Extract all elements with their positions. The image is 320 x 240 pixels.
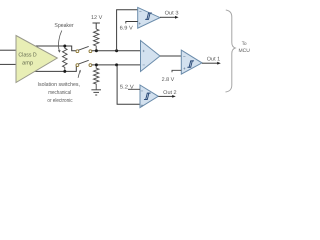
svg-text:Isolation switches,: Isolation switches, [38,81,81,88]
svg-text:−: − [141,88,144,93]
wire amp bottom output [34,65,77,72]
svg-text:+: + [138,21,141,26]
node speaker top [63,45,66,48]
comparator U1 (Out 3) [138,7,160,28]
resistor R1 (pull-up from 12 V) [94,29,99,51]
6.9 V stub [126,22,138,24]
svg-text:or electronic: or electronic [47,97,72,104]
12 V supply bar [93,22,100,24]
brace to MCU [226,10,236,92]
hysteresis symbol U3 [144,93,151,99]
speaker (zigzag across amp outputs) [63,46,68,71]
node C (row C tee to comparator U3) [115,63,118,66]
svg-text:2.8 V: 2.8 V [162,77,175,83]
5.2 V stub [128,88,140,90]
svg-text:Out 2: Out 2 [163,90,176,96]
resistor R2 (pull-down to ground) [94,65,99,90]
wire riser node B to U1 minus input [117,10,138,51]
2.8 V stub [172,70,181,72]
svg-text:Out 1: Out 1 [207,56,220,62]
wire row B (node B to difference amp + input) [92,50,141,52]
svg-text:6.9 V: 6.9 V [120,26,134,32]
ground [91,90,101,95]
node C1 (R2 top junction) [95,63,98,66]
svg-text:+: + [142,48,145,53]
wire A2 output [160,55,181,57]
comparator U2 (Out 1) [181,50,202,74]
svg-text:12 V: 12 V [91,15,103,21]
Isolation switches pointer arrow [78,71,80,78]
svg-text:+: + [141,103,144,108]
wire amp top output [33,46,76,51]
hysteresis symbol U1 [145,13,152,19]
hysteresis symbol U2 [187,61,194,67]
node speaker bottom [63,70,66,73]
Speaker pointer arrow [58,31,61,51]
op-amp A2 difference amp [141,41,161,72]
wire row C (node C to difference amp - input) [92,64,141,66]
node B (row B tee to comparator U1) [115,49,118,52]
svg-text:To: To [242,41,247,47]
switch S1 (top isolation switch) [76,46,92,52]
switch S2 (bottom isolation switch) [76,60,92,66]
wire amp input 1 [0,49,16,51]
svg-text:amp: amp [22,61,33,67]
wire U3 output / Out 2 arrow [158,95,173,97]
svg-text:−: − [142,62,145,67]
comparator U3 (Out 2) [140,85,158,108]
svg-text:+: + [183,66,186,71]
svg-text:Out 3: Out 3 [165,10,179,16]
svg-text:Speaker: Speaker [54,22,73,29]
svg-text:Class D: Class D [18,52,36,59]
wire dropper node C to U3 plus input [117,65,140,104]
node B1 (R1 bottom junction) [95,49,98,52]
wire amp input 2 [0,63,16,65]
svg-text:mechanical: mechanical [48,89,71,96]
op-amp A1 Class D amp [16,36,57,83]
svg-text:5.2 V: 5.2 V [120,84,134,90]
svg-text:MCU: MCU [239,48,251,54]
svg-text:−: − [183,54,186,59]
wire U1 output / Out 3 arrow [160,16,176,18]
wire U2 output / Out 1 arrow [202,62,218,64]
svg-text:−: − [139,9,142,14]
